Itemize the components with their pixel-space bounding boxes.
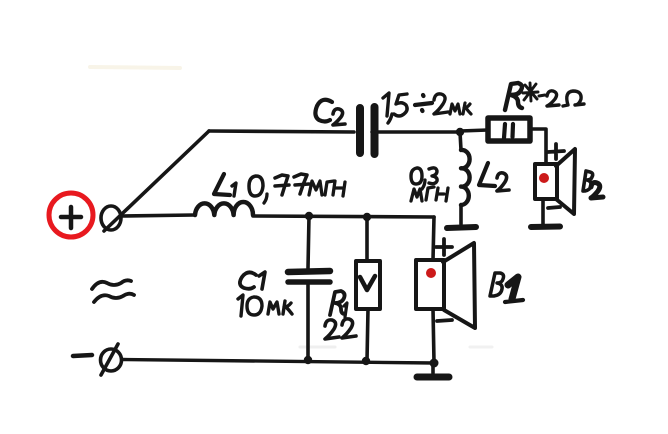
AC tilde lower [94, 294, 134, 302]
junction dot bottom B1 [430, 359, 439, 368]
label B2 [583, 171, 593, 191]
capacitor C1 plates [288, 271, 330, 272]
junction dot bottom C1 [304, 356, 312, 364]
resistor R1 box [356, 261, 380, 309]
wire middle rail L1 to corner [253, 216, 434, 217]
node A junction dot [456, 128, 464, 136]
label L2 [479, 163, 495, 186]
speaker B1 horn [443, 243, 475, 328]
smudge bottom-right [470, 346, 492, 349]
wire stub to ground [431, 363, 435, 373]
speaker B1 box [416, 260, 444, 309]
ground main [417, 374, 449, 381]
B1 minus [437, 320, 452, 321]
B2 minus [548, 207, 560, 208]
minus terminal dash [73, 355, 92, 356]
resistor R* inner marks [504, 124, 513, 138]
B2 plus [548, 144, 564, 159]
label R* 2 Ohm [505, 83, 522, 110]
label 10мк [238, 295, 243, 316]
label 0,3 МГН [411, 168, 422, 184]
resistor R1 inner check [360, 276, 375, 290]
label R1 [330, 291, 345, 315]
input terminal top (circle) [101, 206, 121, 230]
ground under B2 [531, 224, 560, 231]
inductor L1 [195, 202, 253, 215]
node C junction dot [363, 213, 371, 221]
input terminal bottom (circle) [101, 349, 122, 371]
junction dot bottom R1 [362, 357, 370, 365]
speaker B2 red dot [539, 173, 549, 183]
input terminal bottom slash [101, 344, 118, 375]
wire C2 to node A [372, 130, 460, 134]
speaker B2 horn [556, 149, 575, 214]
smudge bottom-left [300, 346, 335, 349]
label B1 [490, 273, 504, 296]
node B junction dot [305, 212, 313, 220]
wire corner down to B1 [433, 217, 434, 260]
speaker B1 red dot [426, 268, 436, 278]
resistor R1 wire bottom [367, 309, 368, 361]
label 22 [325, 320, 339, 339]
label C2 [315, 100, 332, 122]
label 1,5÷2мк [383, 93, 389, 116]
speaker B2 box [535, 164, 557, 199]
inductor L2 [460, 132, 461, 150]
wire B1 to bottom rail [433, 309, 434, 362]
smudge top-left [90, 67, 180, 68]
plus sign in red circle [61, 207, 81, 228]
wire resistor to B2 [530, 129, 546, 164]
wire diagonal from + terminal up to top rail [104, 131, 209, 231]
resistor R1 wire top [365, 217, 369, 261]
ground under L2 [447, 227, 476, 228]
capacitor C1 wire bottom [306, 284, 310, 360]
capacitor C1 wire top [308, 216, 309, 268]
capacitor C2 plates [360, 107, 375, 154]
wire node A to resistor [460, 130, 488, 131]
plus terminal red circle [49, 193, 93, 237]
wire B2 to ground [541, 199, 545, 225]
label L1 0,77МГН [214, 174, 230, 195]
AC tilde upper [92, 280, 131, 289]
wire middle rail from terminal to L1 [121, 215, 194, 216]
label C1 [240, 272, 256, 288]
B1 plus [436, 239, 452, 255]
wire bottom rail [122, 360, 434, 364]
wire top rail to C2 [209, 131, 354, 132]
resistor R* box [488, 118, 530, 141]
